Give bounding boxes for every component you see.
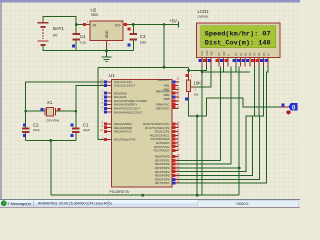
LCD pin D7 — [267, 58, 269, 67]
MCU pin RD1/PSP1 — [172, 159, 178, 161]
LCD pin D1 — [240, 58, 242, 67]
wire crystal ground drop — [50, 141, 52, 196]
MCU pin RC0/T1OSO/T1CKI — [172, 123, 178, 125]
capacitor C3 — [128, 28, 147, 47]
svg-text:RB5: RB5 — [164, 97, 170, 101]
MCU pin RD6/PSP6 — [172, 178, 178, 180]
svg-text:D6: D6 — [262, 52, 266, 56]
svg-text:U1: U1 — [109, 73, 115, 78]
LCD pin D6 — [263, 58, 265, 67]
MCU U1 PIC16F877A — [109, 73, 172, 194]
MCU pin RE2/AN7/CS — [105, 131, 112, 133]
MCU pin RC7/RX/DT — [172, 150, 178, 152]
svg-text:RW: RW — [222, 51, 226, 56]
svg-text:10K: 10K — [194, 81, 202, 86]
potentiometer 10K (MCLR pull / contrast) — [185, 72, 201, 101]
MCU pin RA4/T0CKI/C1OUT — [105, 107, 112, 109]
MCU pin MCLR/Vpp/THV — [105, 139, 112, 141]
wire C3 branch — [132, 25, 134, 51]
LCD pin D0 — [235, 58, 237, 67]
svg-text:MCLR/Vpp/THV: MCLR/Vpp/THV — [114, 138, 136, 142]
svg-text:10uf: 10uf — [140, 41, 146, 45]
svg-text:RC7/RX/DT: RC7/RX/DT — [154, 149, 170, 153]
wire pot ground drop — [196, 116, 198, 195]
LCD pin RS — [218, 58, 220, 67]
MCU pin RD7/PSP7 — [172, 182, 178, 184]
wire RD7 to LCD D7 — [178, 66, 268, 183]
svg-text:GND: GND — [105, 30, 109, 38]
svg-text:7 Message(s): 7 Message(s) — [7, 201, 31, 206]
LCD pins — [198, 50, 270, 66]
svg-text:9V: 9V — [53, 34, 58, 38]
svg-text:+3000.0: +3000.0 — [236, 202, 249, 206]
wire ground jog RW/D0 — [202, 66, 250, 71]
wire caps bottom rail — [26, 140, 76, 142]
wire RD5 to LCD D5 — [178, 66, 259, 175]
MCU pin RB4 — [172, 96, 178, 98]
svg-text:Dist_Cov(m): 140: Dist_Cov(m): 140 — [205, 39, 271, 46]
MCU pin RD2/PSP2 — [172, 163, 178, 165]
svg-text:C3: C3 — [140, 34, 146, 39]
MCU right pins — [143, 76, 180, 185]
svg-text:D2: D2 — [243, 52, 247, 56]
wire OSC2 to crystal — [76, 86, 105, 141]
svg-text:RB7/PGD: RB7/PGD — [156, 107, 170, 111]
svg-text:E: E — [226, 54, 230, 56]
status bar — [0, 199, 300, 208]
svg-text:RB0/INT: RB0/INT — [158, 78, 170, 82]
svg-text:+5V: +5V — [169, 19, 177, 24]
MCU pin RC6/TX/CK — [172, 146, 178, 148]
MCU pin RD3/PSP3 — [172, 167, 178, 169]
wire regulator GND pin down — [106, 41, 108, 57]
wire VI pin link — [76, 24, 83, 26]
MCU pin RB6/PGC — [172, 104, 178, 106]
ground symbol (below regulator) — [102, 51, 112, 62]
svg-text:0.1u: 0.1u — [80, 41, 86, 45]
wire +5V drop to mid rail — [163, 25, 165, 68]
MCU pin RB2 — [172, 88, 178, 90]
wire mid +5V rail — [98, 66, 189, 68]
MCU pin RB5 — [172, 100, 178, 102]
crystal X1 — [40, 100, 60, 123]
wire battery bottom to ground rail — [43, 46, 133, 51]
capacitor C2 — [22, 123, 40, 137]
power terminal +5V — [169, 19, 179, 28]
svg-text:PIC16F877A: PIC16F877A — [110, 190, 130, 194]
window top edge strip — [0, 0, 300, 3]
wire RD4 to LCD D4 — [178, 66, 254, 171]
wire OSC1 to crystal — [26, 82, 105, 141]
wire logic state to node — [207, 98, 280, 116]
LCD pin D4 — [253, 58, 255, 67]
MCU pin RC4/SDI/SDA — [172, 138, 178, 140]
MCU pin RD5/PSP5 — [172, 175, 178, 177]
svg-text:ANIMATING: 00:00:15.300000 (CP: ANIMATING: 00:00:15.300000 (CPU load 46%… — [38, 202, 112, 206]
wire RD6 to LCD D6 — [178, 66, 263, 179]
MCU pin RD4/PSP4 — [172, 171, 178, 173]
wire RD3 to D1 column — [178, 167, 239, 169]
wire crystal left lead — [26, 110, 45, 112]
MCU pin RD0/PSP0 — [172, 156, 178, 158]
wire to MCLR pin — [98, 67, 105, 139]
svg-text:VDD: VDD — [205, 50, 209, 56]
MCU pin RA3/AN3/VREF+ — [105, 104, 112, 106]
logic state probe 0 — [279, 103, 297, 114]
capacitor C1 — [70, 123, 90, 137]
MCU pin RE1/AN6/WR — [105, 127, 112, 129]
svg-text:D1: D1 — [239, 52, 243, 56]
svg-text:D4: D4 — [253, 52, 257, 56]
svg-text:CRYSTAL: CRYSTAL — [46, 119, 60, 123]
svg-text:VI: VI — [93, 23, 97, 28]
wire pot wiper to LCD VEE — [195, 66, 211, 86]
MCU pin RB0/INT — [172, 81, 178, 83]
wire pot bottom to ground — [189, 98, 207, 116]
MCU pin RA2/AN2/VREF-/CVREF — [105, 100, 112, 102]
wire RD2 to LCD E — [178, 66, 231, 164]
LCD pin VEE — [210, 58, 212, 67]
svg-text:OSC2/CLKOUT: OSC2/CLKOUT — [114, 84, 135, 88]
wire LCD D1 ground drop — [238, 66, 240, 195]
MCU pin RC1/T1OSI/CCP2 — [172, 127, 178, 129]
battery BAT1 — [38, 23, 65, 45]
svg-text:7805: 7805 — [91, 13, 99, 17]
wire RD1 to LCD RS — [178, 66, 220, 160]
svg-text:RA5/AN4/SS/C2OUT: RA5/AN4/SS/C2OUT — [114, 110, 143, 114]
svg-text:RD7/PSP7: RD7/PSP7 — [155, 181, 170, 185]
svg-text:X1: X1 — [47, 100, 53, 105]
MCU pin RB1 — [172, 85, 178, 87]
svg-text:10k: 10k — [194, 93, 199, 97]
LCD LCD1 LM016L — [196, 9, 280, 58]
wire LCD VSS down — [201, 66, 203, 195]
LCD pin VSS — [201, 58, 203, 67]
wire VI node to C4 and bottom rail — [75, 25, 77, 51]
capacitor C4 — [72, 34, 86, 47]
LCD pin D3 — [249, 58, 251, 67]
window left edge strip — [0, 3, 2, 200]
svg-text:RS: RS — [217, 52, 221, 56]
svg-text:RE2/AN7/CS: RE2/AN7/CS — [114, 130, 132, 134]
wire VO to +5V terminal — [130, 24, 179, 26]
svg-text:VO: VO — [115, 23, 121, 28]
svg-text:22pF: 22pF — [33, 128, 40, 132]
svg-text:LM016L: LM016L — [198, 15, 209, 19]
MCU pin RE0/AN5/RD — [105, 123, 112, 125]
LCD pin RW — [223, 58, 225, 67]
ground rail bottom — [51, 194, 239, 196]
LCD pin D5 — [258, 58, 260, 67]
wire +5V to LCD VDD — [189, 66, 207, 70]
schematic canvas background — [0, 0, 300, 199]
svg-text:D7: D7 — [266, 52, 270, 56]
MCU pin RC2/CCP1 — [172, 131, 178, 133]
regulator U2 7805 — [83, 8, 130, 48]
LCD pin E — [227, 58, 229, 67]
LCD pin VDD — [206, 58, 208, 67]
wire battery top to regulator VI node — [43, 17, 76, 25]
svg-text:D5: D5 — [257, 52, 261, 56]
svg-text:VSS: VSS — [200, 51, 204, 56]
svg-text:C2: C2 — [33, 123, 39, 128]
wire pot top — [188, 67, 190, 72]
MCU pin OSC2/CLKOUT — [105, 85, 112, 87]
svg-text:D3: D3 — [248, 52, 252, 56]
svg-text:BAT1: BAT1 — [53, 26, 64, 31]
MCU pin OSC1/CLKIN — [105, 81, 112, 83]
MCU pin RC5/SDO — [172, 142, 178, 144]
MCU pin RA0/AN0 — [105, 92, 112, 94]
svg-text:22pF: 22pF — [83, 128, 90, 132]
svg-text:Speed(km/hr): 07: Speed(km/hr): 07 — [205, 30, 271, 37]
svg-text:C1: C1 — [83, 123, 89, 128]
svg-text:LCD1: LCD1 — [198, 9, 210, 14]
svg-text:VEE: VEE — [209, 51, 213, 56]
svg-text:C4: C4 — [80, 34, 86, 39]
MCU pin RC3/SCK/SCL — [172, 134, 178, 136]
wire crystal right lead — [56, 110, 76, 112]
MCU pin RA5/AN4/SS/C2OUT — [105, 111, 112, 113]
MCU left pins — [100, 78, 147, 141]
MCU pin RA1/AN1 — [105, 96, 112, 98]
MCU pin RB7/PGD — [172, 107, 178, 109]
MCU pin RB3/PGM — [172, 92, 178, 94]
svg-text:D0: D0 — [234, 52, 238, 56]
LCD pin D2 — [244, 58, 246, 67]
